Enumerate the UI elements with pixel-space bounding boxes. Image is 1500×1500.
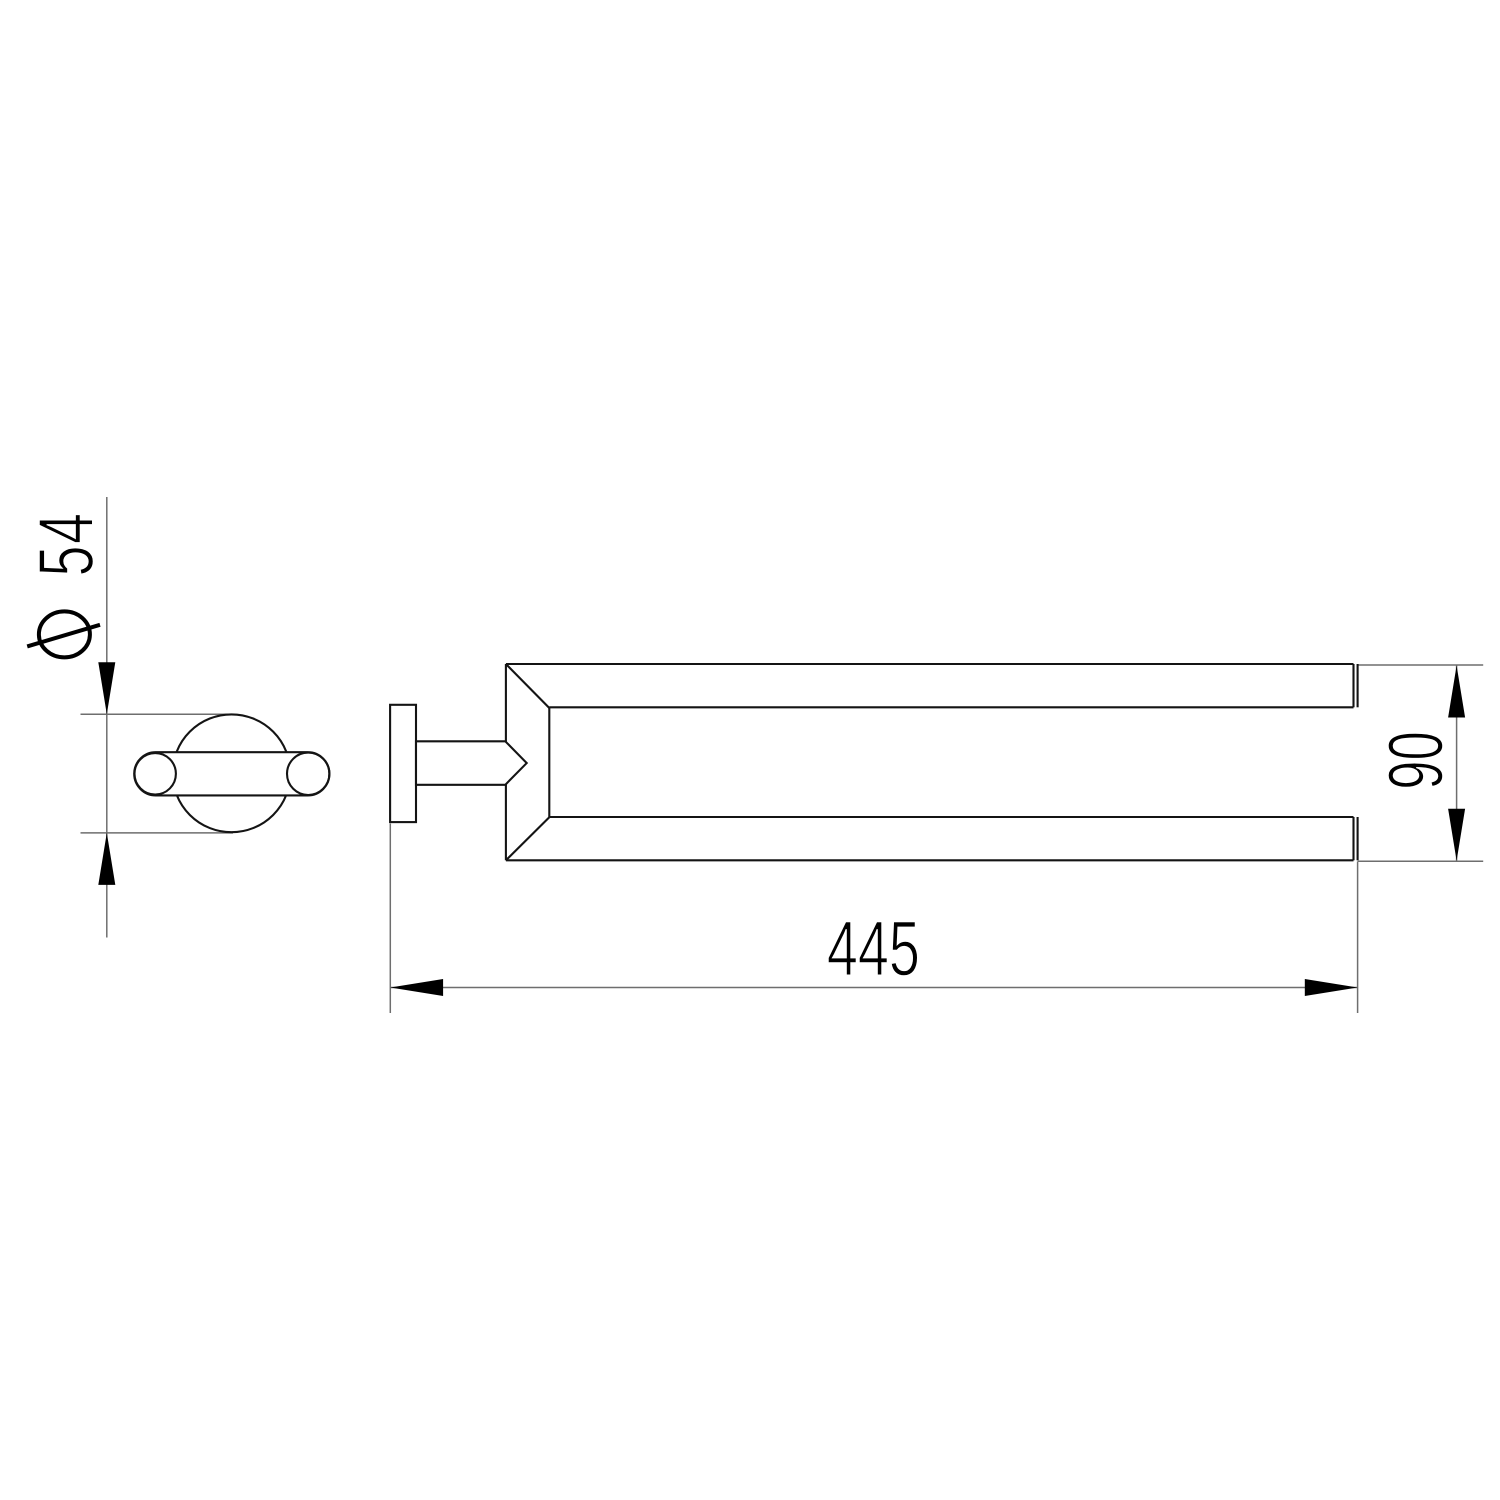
svg-text:54: 54	[24, 512, 110, 577]
svg-text:90: 90	[1373, 731, 1460, 790]
svg-text:445: 445	[827, 906, 920, 992]
